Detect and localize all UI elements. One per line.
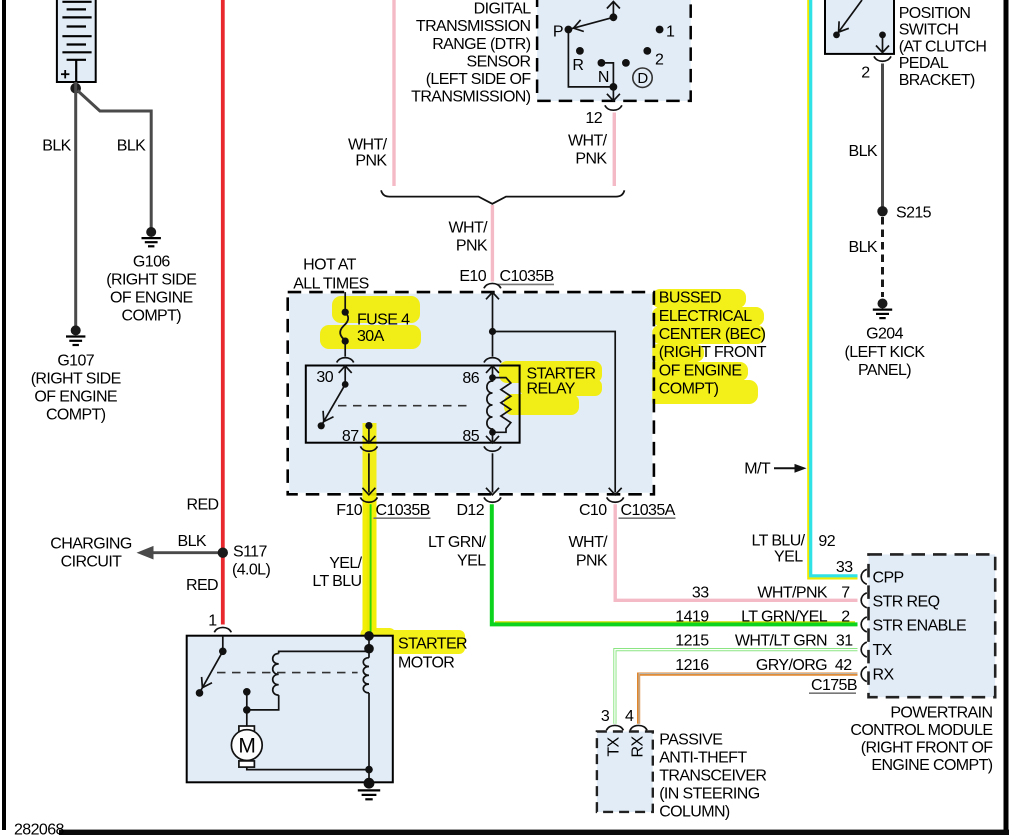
label HOT AT ALL TIMES [293,257,369,293]
hold-in winding coil [273,654,279,696]
wire 87 to F10 [368,453,370,492]
highlight over OF ENGINE text line 5 [637,362,748,381]
node P contact [565,26,573,34]
svg-text:MOTOR: MOTOR [398,655,454,672]
connector transceiver pin 4 [630,725,647,730]
page border left [2,0,6,830]
yellow stripe on STR ENABLE wire [495,621,855,623]
svg-text:GRY/ORG: GRY/ORG [756,657,827,674]
node contact 1 [656,26,664,34]
wire S terminal to hold-in winding [279,649,369,654]
wire LT GRN/YEL D12 to STR ENABLE [492,504,858,624]
svg-text:STR REQ: STR REQ [873,593,940,610]
relay coil [487,378,493,433]
svg-text:WHT/LT GRN: WHT/LT GRN [735,633,827,650]
label WHT/PNK right [568,133,608,168]
wire pin 85 down [492,432,494,442]
connector transceiver pin 3 [606,725,623,730]
svg-text:BUSSED: BUSSED [659,290,721,307]
wire YEL/LT BLU F10 to starter [367,504,372,635]
svg-text:ANTI-THEFT: ANTI-THEFT [659,750,747,767]
svg-text:COLUMN): COLUMN) [659,804,730,821]
node pin 30 [342,381,349,388]
arrow down at F10 [362,488,375,495]
svg-text:PNK: PNK [576,553,608,570]
svg-text:ALL TIMES: ALL TIMES [293,276,369,293]
svg-text:STARTER: STARTER [398,636,467,653]
svg-text:OF ENGINE: OF ENGINE [34,389,117,406]
page bottom bar [59,830,1009,835]
svg-text:M/T: M/T [744,461,771,478]
wire motor to ground run [247,767,369,770]
svg-text:2: 2 [655,52,664,69]
wire pull-in winding to ground node [368,693,370,782]
svg-text:OF ENGINE: OF ENGINE [659,362,742,379]
label LT GRN/YEL D12 [428,534,487,570]
svg-text:1215: 1215 [675,633,709,650]
node pin 87 [365,422,372,429]
svg-text:COMPT): COMPT) [122,308,182,325]
svg-text:POWERTRAIN: POWERTRAIN [890,704,992,721]
wire LT BLU/YEL to CPP [811,0,858,576]
wire E10 into BEC [492,292,494,331]
node BEC branch [489,328,496,335]
svg-text:WHT/: WHT/ [348,137,388,154]
connector C10 [607,497,624,502]
svg-text:HOT AT: HOT AT [303,257,357,274]
BEC box [288,292,654,494]
connector relay pin 30 [337,358,354,363]
svg-text:G106: G106 [133,254,170,271]
arrow up at E10 [486,292,499,299]
svg-text:(4.0L): (4.0L) [232,562,270,579]
svg-text:COMPT): COMPT) [659,381,719,398]
svg-text:C1035B: C1035B [500,268,554,285]
arrowhead at P [574,20,584,32]
label G204 [845,326,926,379]
arrow into pin 86 [486,366,499,373]
node fixed contact [243,688,251,696]
ground G106 [142,227,161,246]
switch arm [838,0,863,34]
svg-text:CENTER (BEC): CENTER (BEC) [659,326,766,343]
svg-text:1: 1 [208,613,217,630]
svg-text:TRANSMISSION): TRANSMISSION) [411,89,531,106]
svg-text:G107: G107 [57,353,94,370]
highlight over FUSE 4 label [332,296,420,323]
connector F10 [360,497,377,502]
arrowhead solenoid arm [202,677,212,688]
arrow down pin 12 [607,94,620,101]
node S117 [218,548,228,558]
highlight over CENTER (BEC) text line 3 [652,325,765,344]
svg-text:STR ENABLE: STR ENABLE [873,618,967,635]
label D circled [633,68,652,87]
svg-text:BLK: BLK [178,533,207,550]
svg-text:TX: TX [606,736,623,756]
wire 85 to D12 [492,453,494,492]
svg-text:LT GRN/YEL: LT GRN/YEL [741,609,828,626]
wire BLK switch to S215 [881,64,884,209]
wire pin 1 into switch [222,636,224,652]
svg-text:7: 7 [841,585,850,602]
DTR sensor box [537,0,691,101]
svg-text:SENSOR: SENSOR [467,53,531,70]
svg-text:C1035B: C1035B [376,502,430,519]
highlight blob at starter motor terminal [361,628,396,656]
wire BLK to charging circuit [151,551,223,554]
node battery terminal [70,83,81,94]
label WHT/PNK left [348,137,388,170]
wire branch to relay pin 86 [492,332,494,357]
svg-text:E10: E10 [459,268,486,285]
svg-text:FUSE 4: FUSE 4 [357,312,410,329]
re-draw highlights inside BEC [320,296,602,631]
svg-text:YEL/: YEL/ [329,555,362,572]
node pin 86 [489,374,496,381]
node N contact [598,59,606,67]
svg-text:42: 42 [835,657,852,674]
svg-text:282068: 282068 [14,822,64,835]
relay switch arm [322,384,345,424]
motor M armature [231,730,262,761]
relay linkage dashed [338,405,472,407]
svg-text:CPP: CPP [873,570,904,587]
battery [57,0,96,82]
svg-text:WHT/: WHT/ [449,220,489,237]
wire pin 12 exit [612,87,614,100]
svg-text:SWITCH: SWITCH [899,22,959,39]
connector STR ENABLE [861,617,867,632]
highlight over STARTER RELAY label [499,361,602,383]
node switch contact left [833,32,840,39]
wire pin 87 down [368,426,370,442]
svg-text:POSITION: POSITION [899,5,971,22]
highlight over 30A label [320,325,421,349]
svg-text:CIRCUIT: CIRCUIT [61,554,123,571]
node pin 12 junction [610,83,618,91]
wire hold-in winding to contact [247,695,279,710]
svg-text:TRANSMISSION: TRANSMISSION [416,18,531,35]
wire pin 2 exit [882,35,884,52]
arrow to charging circuit [137,546,154,560]
connector TX [861,642,867,657]
relay resistor [493,378,511,433]
connector STR REQ [861,593,867,608]
wire RED battery feed [221,0,225,625]
pull-in winding coil [363,658,369,693]
svg-text:RANGE (DTR): RANGE (DTR) [432,36,531,53]
wire GRY/ORG RX [639,674,858,724]
arrowhead relay arm [323,411,333,422]
svg-text:(RIGHT SIDE: (RIGHT SIDE [31,371,121,388]
svg-text:PNK: PNK [355,153,387,170]
svg-text:BLK: BLK [42,138,71,155]
node S215 [877,206,887,216]
highlight over COMPT) text line 6 [646,380,758,404]
connector below pin 87 [360,446,377,451]
wire hot feed into fuse [344,292,346,312]
svg-text:WHT/PNK: WHT/PNK [757,585,828,602]
wire WHT/PNK left branch [392,0,395,186]
label WHT/PNK C10 [569,534,609,570]
svg-text:30: 30 [316,369,333,386]
svg-text:BLK: BLK [117,138,146,155]
wire WHT/PNK right branch [613,113,616,187]
node switch contact right [879,32,886,39]
svg-text:BLK: BLK [849,143,878,160]
connector relay pin 86 [484,358,501,363]
node relay arm end [318,422,325,429]
svg-text:G204: G204 [866,326,903,343]
starter motor box [187,636,393,783]
wire contact to junction [246,692,248,710]
wire junction to motor [246,710,248,726]
fuse F4 [342,309,349,316]
passive anti-theft transceiver box [597,732,653,812]
arrow down pin 2 [876,46,889,53]
highlight over BUSSED text line 1 [652,289,746,308]
connector pin 12 [605,105,622,110]
svg-text:PEDAL: PEDAL [899,55,949,72]
svg-text:S215: S215 [896,205,932,222]
arrow M/T [774,467,797,469]
svg-text:85: 85 [462,428,479,445]
svg-text:4: 4 [625,708,634,725]
page border right [1004,0,1009,835]
arrow down pin 85 [486,436,499,443]
svg-text:(LEFT SIDE OF: (LEFT SIDE OF [426,71,532,88]
brace joining branches [381,190,624,204]
svg-text:F10: F10 [336,502,362,519]
arrowhead switch arm [839,21,849,32]
label YEL/LT BLU [312,555,362,590]
svg-text:PASSIVE: PASSIVE [659,731,722,748]
node DTR wiper pivot [610,13,618,21]
svg-text:BLK: BLK [849,239,878,256]
svg-text:RX: RX [630,736,647,758]
svg-text:M: M [238,735,255,758]
ground starter motor [358,778,380,800]
arrow down pin 87 [362,436,375,443]
svg-text:92: 92 [818,533,835,550]
svg-text:D12: D12 [456,502,484,519]
svg-text:RX: RX [873,667,895,684]
highlight over (RIGHT text line 4 [650,344,704,362]
svg-text:ELECTRICAL: ELECTRICAL [659,308,752,325]
svg-text:YEL: YEL [457,553,486,570]
node center contact [622,59,630,67]
svg-text:1216: 1216 [675,657,709,674]
svg-text:RELAY: RELAY [527,381,576,398]
svg-text:S117: S117 [233,544,267,561]
label CHARGING CIRCUIT [50,536,132,571]
svg-text:N: N [598,69,609,86]
svg-text:86: 86 [462,370,479,387]
svg-text:OF ENGINE: OF ENGINE [110,290,193,307]
highlight over ELECTRICAL text line 2 [652,307,764,326]
wire P to pin 12 [568,30,613,87]
arrow down at D12 [486,488,499,495]
highlight band over wire F10 [363,423,377,631]
svg-text:2: 2 [841,609,850,626]
node contact 2 [643,47,651,55]
connector pin 1 starter motor [214,627,231,632]
arrow into pin 30 [339,366,352,373]
label BUSSED ELECTRICAL CENTER [659,290,767,398]
starter relay box [306,366,520,443]
wire BLK battery to G106 [78,91,152,229]
label G107 [31,353,121,424]
motor M brush bottom [239,761,255,767]
svg-text:(RIGHT FRONT OF: (RIGHT FRONT OF [861,740,994,757]
label PASSIVE ANTI-THEFT TRANSCEIVER [659,731,766,820]
svg-text:BRACKET): BRACKET) [899,72,975,89]
node solenoid arm end [196,689,204,697]
svg-text:(AT CLUTCH: (AT CLUTCH [899,38,987,55]
svg-text:WHT/: WHT/ [569,534,609,551]
connector pin 2 [874,56,891,61]
svg-text:CONTROL MODULE: CONTROL MODULE [850,722,992,739]
svg-text:LT BLU/: LT BLU/ [751,533,805,550]
connector D12 [484,497,501,502]
label WHT/PNK center [449,220,489,255]
svg-text:WHT/: WHT/ [568,133,608,150]
label G106 [106,254,196,325]
svg-text:LT BLU: LT BLU [312,573,361,590]
label POWERTRAIN CONTROL MODULE [850,704,993,774]
svg-text:RED: RED [186,577,218,594]
svg-text:31: 31 [836,633,853,650]
motor M brush top [239,726,255,732]
svg-text:YEL: YEL [774,549,803,566]
node motor junction [243,706,251,714]
connector below pin 85 [484,446,501,451]
PCM box [869,554,996,697]
connector E10 [484,283,501,288]
svg-text:C10: C10 [579,502,607,519]
node pin 85 [489,429,496,436]
svg-text:PANEL): PANEL) [858,362,911,379]
wire fuse to relay pin 30 [344,341,346,356]
svg-text:87: 87 [342,428,359,445]
switch wiper to P [570,17,614,29]
label position switch [899,5,987,89]
svg-text:P: P [553,24,563,41]
label DTR sensor [411,1,531,106]
svg-text:33: 33 [836,559,853,576]
svg-text:LT GRN/: LT GRN/ [428,534,487,551]
svg-text:TRANSCEIVER: TRANSCEIVER [659,768,766,785]
svg-text:33: 33 [692,585,709,602]
node solenoid switch pivot [219,648,227,656]
svg-text:CHARGING: CHARGING [50,536,132,553]
wire DTR top feed [612,2,614,17]
label LT BLU/YEL [751,533,805,566]
wire WHT/PNK to E10 [491,205,494,282]
node solenoid S terminal [364,644,374,654]
svg-text:DIGITAL: DIGITAL [474,1,532,18]
svg-text:RED: RED [187,497,219,514]
connector RX [861,667,867,682]
clutch pedal position switch box [825,0,894,54]
svg-text:PNK: PNK [575,151,607,168]
wire BLK dashed S215 to G204 [881,217,884,297]
node starter terminal on edge [364,631,374,641]
svg-text:PNK: PNK [456,238,488,255]
solenoid linkage dashed [217,672,358,674]
svg-text:3: 3 [601,708,610,725]
node R contact [576,47,584,55]
arrow down at C10 [609,488,622,495]
green stripe on YEL/LT BLU wire [370,504,372,635]
connector CPP [861,569,867,584]
svg-text:R: R [572,57,583,74]
wire branch to C10 [493,332,616,493]
highlighter marks layer [320,289,765,656]
svg-text:12: 12 [585,110,602,127]
wire WHT/LT GRN TX [615,650,858,724]
svg-text:C1035A: C1035A [621,502,676,519]
wire WHT/PNK C10 to STR REQ [615,504,857,600]
svg-text:1: 1 [666,24,675,41]
svg-text:ENGINE COMPT): ENGINE COMPT) [871,757,992,774]
ground G107 [66,325,85,345]
svg-text:2: 2 [861,65,870,82]
svg-text:(RIGHT SIDE: (RIGHT SIDE [106,272,196,289]
svg-text:30A: 30A [357,328,385,345]
svg-text:(IN STEERING: (IN STEERING [659,786,760,803]
wire BLK battery to G107 [74,82,77,327]
wire LT BLU/YEL yellow stripe [808,0,857,578]
svg-text:TX: TX [873,642,893,659]
svg-text:(RIGHT FRONT: (RIGHT FRONT [659,344,767,361]
solenoid switch arm [200,651,223,691]
starter relay box fill [306,366,520,443]
svg-text:D: D [637,70,648,87]
ground G204 [873,299,892,319]
svg-text:1419: 1419 [675,609,709,626]
node ground junction [365,766,373,774]
arrow up DTR top [607,2,620,9]
svg-text:(LEFT KICK: (LEFT KICK [845,344,926,361]
svg-text:C175B: C175B [811,677,857,694]
svg-text:COMPT): COMPT) [46,407,106,424]
highlight over STARTER motor label [376,630,465,654]
wire N to junction [601,63,613,87]
